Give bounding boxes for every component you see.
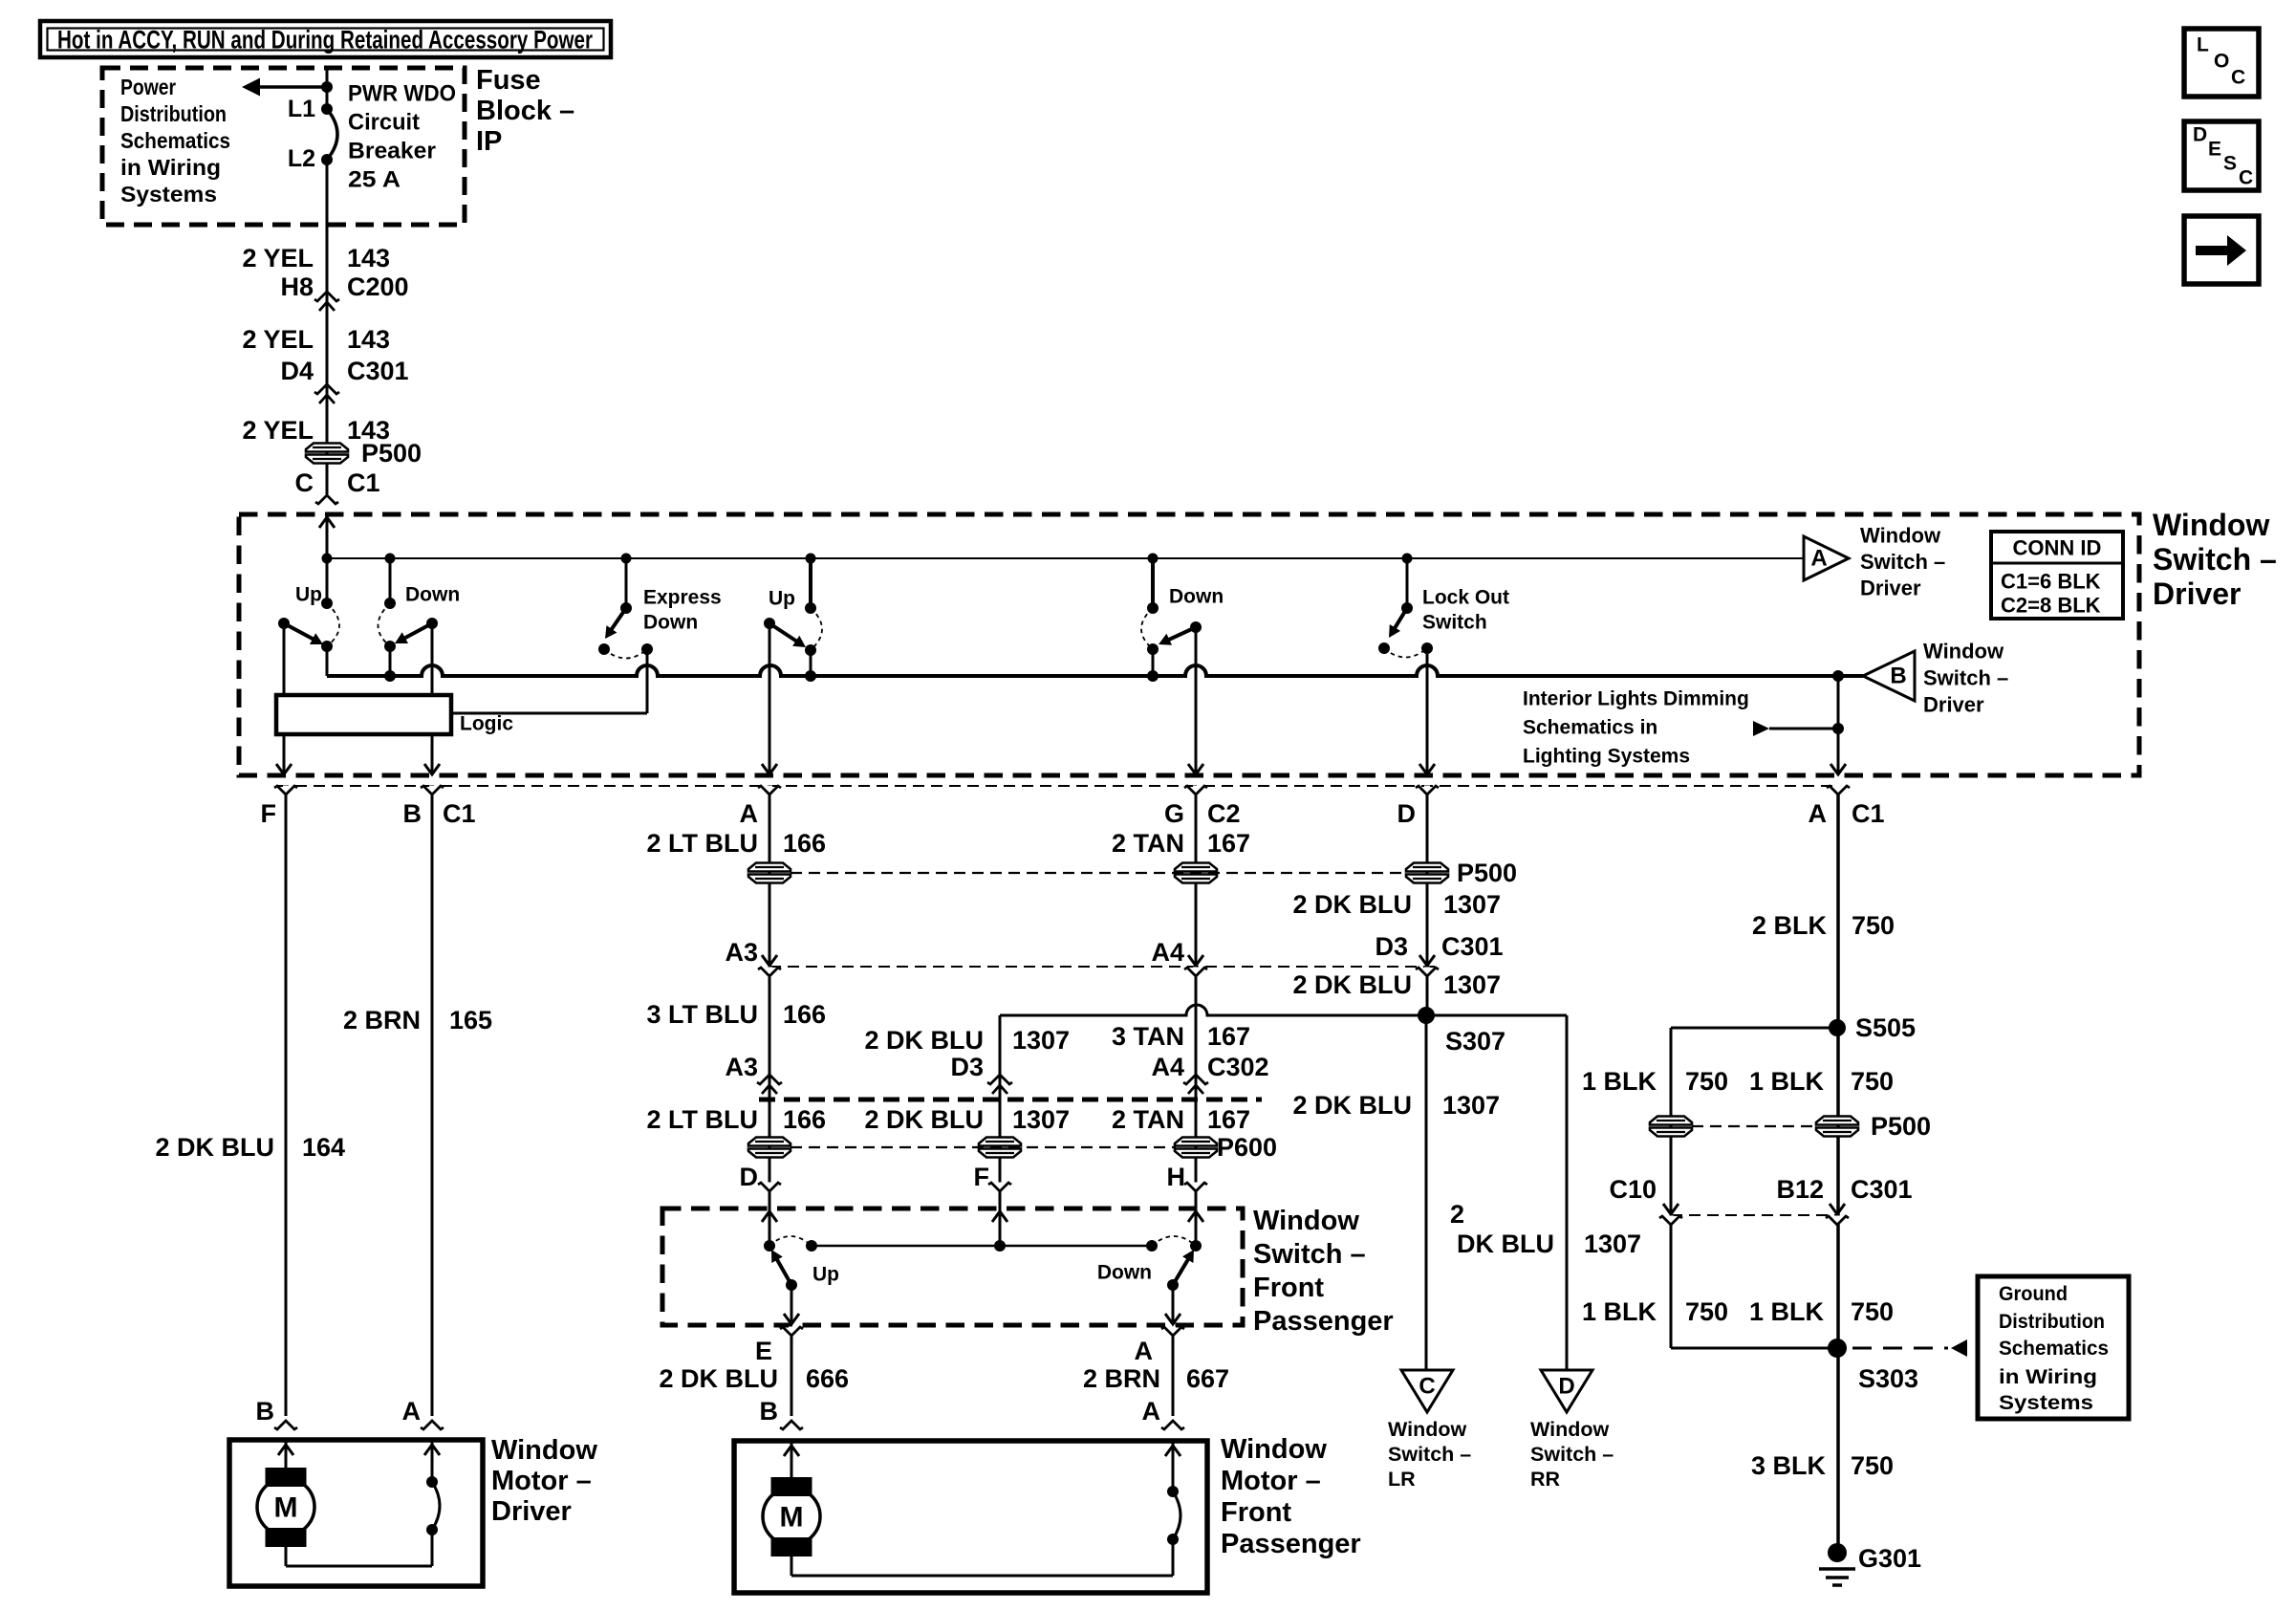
connector C301 body face dashed line: [762, 955, 777, 966]
svg-text:Up: Up: [812, 1264, 839, 1286]
svg-text:Express: Express: [643, 587, 722, 609]
svg-text:C: C: [1419, 1374, 1435, 1400]
passenger pin chevrons E A: [789, 1327, 794, 1336]
ground note dashed pointer: [1852, 1347, 1948, 1350]
svg-text:164: 164: [302, 1133, 345, 1162]
ground distribution note box: [1978, 1276, 2129, 1419]
wire E to passenger motor: [791, 1336, 793, 1416]
triangle connector A: [1804, 536, 1849, 580]
svg-text:G: G: [1164, 799, 1184, 828]
svg-text:2 DK BLU: 2 DK BLU: [659, 1364, 778, 1393]
connector C302 face heavy dashed line: [759, 1098, 1262, 1102]
svg-text:Window: Window: [1923, 640, 2004, 664]
svg-text:2 DK BLU: 2 DK BLU: [1292, 890, 1412, 919]
conn id box: [1991, 532, 2123, 619]
pin chevron at x=1493: [1424, 786, 1430, 795]
svg-text:Lock Out: Lock Out: [1422, 587, 1509, 609]
svg-text:2 BRN: 2 BRN: [343, 1006, 421, 1034]
svg-text:C1=6 BLK: C1=6 BLK: [2001, 570, 2101, 594]
svg-text:F: F: [974, 1163, 990, 1191]
svg-text:D: D: [2193, 124, 2207, 146]
svg-text:D: D: [1558, 1374, 1574, 1400]
svg-text:1307: 1307: [1012, 1105, 1070, 1134]
svg-text:Passenger: Passenger: [1253, 1306, 1394, 1337]
svg-text:B12: B12: [1776, 1175, 1824, 1204]
svg-text:1 BLK: 1 BLK: [1582, 1297, 1657, 1326]
pin chevron at x=1251: [1193, 786, 1199, 795]
svg-text:A3: A3: [725, 1053, 758, 1081]
svg-text:G301: G301: [1858, 1544, 1921, 1573]
svg-text:L: L: [2197, 34, 2209, 56]
driver motor internal contact: [431, 1440, 434, 1482]
connector C200 splice chevrons: [314, 292, 339, 301]
bus2 line with hops: [327, 665, 1863, 676]
grommet P600 on wire A: [748, 1138, 791, 1146]
passenger up switch in driver box: [806, 554, 816, 564]
arrow box: [2184, 216, 2259, 284]
svg-text:Switch –: Switch –: [1860, 550, 1945, 574]
svg-text:E: E: [2208, 139, 2221, 161]
svg-text:Fuse: Fuse: [476, 65, 541, 96]
wire S307 to LR triangle: [1425, 1015, 1428, 1370]
svg-text:C200: C200: [347, 272, 409, 301]
svg-text:P500: P500: [1457, 859, 1517, 887]
svg-text:Power: Power: [120, 75, 176, 99]
wire bus2 to pin A right: [1832, 670, 1844, 682]
driver down switch: [385, 554, 396, 564]
svg-text:DK BLU: DK BLU: [1457, 1230, 1554, 1258]
svg-text:Window: Window: [1221, 1434, 1327, 1465]
grommet on wire A: [748, 863, 791, 872]
svg-text:S: S: [2223, 153, 2237, 175]
svg-text:1 BLK: 1 BLK: [1749, 1297, 1825, 1326]
svg-text:M: M: [780, 1502, 804, 1534]
svg-text:2: 2: [1450, 1200, 1464, 1229]
svg-text:Switch –: Switch –: [1253, 1239, 1366, 1270]
svg-text:Down: Down: [643, 612, 698, 634]
svg-text:166: 166: [783, 1105, 826, 1134]
svg-text:A: A: [1809, 799, 1828, 828]
svg-text:L2: L2: [288, 145, 315, 172]
svg-text:Circuit: Circuit: [348, 110, 420, 136]
svg-text:A4: A4: [1151, 1053, 1184, 1081]
svg-text:in Wiring: in Wiring: [1999, 1365, 2097, 1388]
passenger motor M symbol: [791, 1441, 793, 1477]
svg-text:Systems: Systems: [1999, 1391, 2093, 1414]
wire B to window motor driver: [431, 795, 434, 1416]
svg-text:Breaker: Breaker: [348, 139, 436, 164]
svg-text:Window: Window: [1860, 524, 1941, 548]
svg-text:2 DK BLU: 2 DK BLU: [864, 1105, 984, 1134]
svg-text:Schematics: Schematics: [120, 128, 230, 153]
svg-text:Ground: Ground: [1999, 1282, 2068, 1305]
svg-text:O: O: [2214, 51, 2229, 73]
svg-text:Down: Down: [405, 584, 460, 606]
svg-text:LR: LR: [1388, 1468, 1416, 1491]
svg-text:2 TAN: 2 TAN: [1112, 829, 1184, 858]
svg-text:Distribution: Distribution: [120, 101, 227, 126]
svg-text:750: 750: [1685, 1297, 1728, 1326]
passenger switch wire H entry: [1195, 1208, 1198, 1246]
svg-text:Schematics in: Schematics in: [1523, 717, 1657, 739]
connector C1 entry chevron: [315, 495, 338, 504]
svg-text:143: 143: [347, 325, 390, 354]
svg-text:CONN ID: CONN ID: [2013, 536, 2102, 560]
driver motor bottom jumper: [285, 1547, 288, 1566]
svg-text:C301: C301: [347, 357, 409, 385]
splice S307: [1000, 1005, 1567, 1015]
wire G down to passenger switch: [1195, 795, 1198, 1208]
svg-text:D4: D4: [280, 357, 314, 385]
svg-text:Hot in ACCY, RUN and During Re: Hot in ACCY, RUN and During Retained Acc…: [57, 26, 593, 54]
bus1 supply line: [327, 557, 1804, 559]
svg-text:A: A: [1135, 1337, 1154, 1365]
svg-text:C301: C301: [1851, 1175, 1913, 1204]
svg-text:H8: H8: [280, 272, 314, 301]
fuse block - IP dashed box: [102, 68, 465, 225]
svg-text:1 BLK: 1 BLK: [1582, 1067, 1657, 1096]
window motor driver box: [229, 1440, 483, 1586]
svg-text:IP: IP: [476, 126, 502, 157]
window motor front passenger box: [734, 1441, 1207, 1593]
branch rejoin to S303: [1671, 1347, 1837, 1350]
svg-text:667: 667: [1186, 1364, 1229, 1393]
svg-text:Down: Down: [1097, 1262, 1152, 1284]
driver motor M symbol: [285, 1440, 288, 1468]
svg-text:Window: Window: [1253, 1206, 1359, 1236]
svg-text:D: D: [1397, 799, 1417, 828]
grommet P600 on wire F: [979, 1138, 1021, 1146]
passenger pin A wire: [1172, 1285, 1175, 1324]
circuit breaker PWR WDO 25A: [321, 103, 333, 115]
svg-text:A: A: [1810, 546, 1827, 572]
svg-text:A: A: [402, 1397, 422, 1426]
svg-text:25 A: 25 A: [348, 167, 401, 193]
svg-text:167: 167: [1207, 829, 1250, 858]
svg-text:Schematics: Schematics: [1999, 1337, 2109, 1360]
svg-text:H: H: [1167, 1163, 1186, 1191]
svg-text:C2=8 BLK: C2=8 BLK: [2001, 594, 2101, 618]
svg-text:S307: S307: [1445, 1027, 1505, 1056]
passenger switch wire D entry: [769, 1208, 771, 1246]
svg-text:P500: P500: [1871, 1112, 1931, 1141]
wire A pivot to pin A: [769, 623, 771, 774]
branch left from S505: [1671, 1027, 1837, 1030]
svg-text:Block –: Block –: [476, 96, 574, 126]
svg-text:Up: Up: [295, 584, 322, 606]
svg-text:B: B: [256, 1397, 275, 1426]
wire A right down to S505: [1836, 795, 1840, 1553]
wire D lockout to pin D: [1426, 648, 1429, 774]
connector C301 face right pair: [1663, 1204, 1679, 1214]
svg-text:1307: 1307: [1012, 1026, 1070, 1055]
svg-text:2 YEL: 2 YEL: [242, 244, 314, 272]
svg-text:Window: Window: [2153, 508, 2269, 542]
grommet P500 on feed wire: [326, 437, 329, 468]
svg-text:Driver: Driver: [1923, 693, 1984, 717]
svg-text:167: 167: [1207, 1022, 1250, 1051]
svg-text:2 YEL: 2 YEL: [242, 325, 314, 354]
svg-text:L1: L1: [288, 96, 315, 122]
svg-text:B: B: [1890, 664, 1906, 689]
interior lights feed arrow: [1753, 721, 1769, 736]
svg-text:F: F: [261, 799, 277, 828]
wire F through logic to pin F: [283, 623, 286, 695]
svg-text:Driver: Driver: [491, 1496, 572, 1527]
svg-text:A3: A3: [725, 938, 758, 967]
svg-text:Up: Up: [769, 588, 795, 610]
pin chevron at x=299: [283, 786, 289, 795]
triangle connector D: [1541, 1370, 1592, 1412]
svg-text:D3: D3: [950, 1053, 984, 1081]
svg-text:2 TAN: 2 TAN: [1112, 1105, 1184, 1134]
C301 face crossing wire D: [1419, 955, 1435, 966]
driver up switch: [322, 554, 333, 564]
node at breaker feed: [321, 81, 333, 93]
svg-text:A: A: [740, 799, 759, 828]
svg-text:1307: 1307: [1584, 1230, 1641, 1258]
svg-text:M: M: [274, 1492, 298, 1524]
svg-text:Switch –: Switch –: [2153, 542, 2277, 577]
svg-text:C: C: [295, 468, 314, 497]
lock out switch: [1402, 554, 1413, 564]
express down switch: [621, 554, 632, 564]
svg-text:Window: Window: [1530, 1418, 1609, 1441]
svg-text:3 TAN: 3 TAN: [1112, 1022, 1184, 1051]
grommet row P500 dashed link: [791, 872, 1405, 874]
connector C301 splice chevrons: [314, 384, 339, 394]
svg-text:750: 750: [1851, 1297, 1894, 1326]
wire F to window motor driver: [285, 795, 288, 1416]
svg-text:C10: C10: [1609, 1175, 1657, 1204]
svg-text:Driver: Driver: [2153, 577, 2242, 611]
triangle connector C: [1401, 1370, 1453, 1412]
svg-text:3 LT BLU: 3 LT BLU: [647, 1000, 759, 1029]
logic box: [276, 695, 451, 734]
svg-text:750: 750: [1852, 911, 1895, 940]
svg-text:C1: C1: [1852, 799, 1885, 828]
svg-text:2 DK BLU: 2 DK BLU: [1292, 1091, 1412, 1120]
grommet P500 pair: [1692, 1125, 1816, 1127]
svg-text:3 BLK: 3 BLK: [1751, 1451, 1827, 1480]
connector face dashed line under driver box: [277, 785, 1838, 787]
pin chevron at x=1923: [1835, 786, 1841, 795]
wire P500 to switch connector: [326, 468, 329, 494]
svg-text:Switch: Switch: [1422, 612, 1487, 634]
svg-text:Passenger: Passenger: [1221, 1529, 1361, 1559]
svg-text:143: 143: [347, 244, 390, 272]
svg-text:Switch –: Switch –: [1388, 1443, 1471, 1466]
wire from fuse block top: [326, 69, 329, 109]
svg-text:PWR WDO: PWR WDO: [348, 81, 456, 107]
svg-text:Logic: Logic: [460, 713, 513, 735]
svg-text:167: 167: [1207, 1105, 1250, 1134]
pin chevron at x=805: [767, 786, 772, 795]
svg-text:S505: S505: [1855, 1013, 1916, 1042]
svg-text:2 DK BLU: 2 DK BLU: [1292, 970, 1412, 999]
svg-text:Distribution: Distribution: [1999, 1310, 2105, 1333]
passenger switch common bar: [812, 1245, 1152, 1248]
svg-text:A4: A4: [1151, 938, 1184, 967]
svg-text:Switch –: Switch –: [1530, 1443, 1614, 1466]
svg-text:D3: D3: [1375, 932, 1408, 961]
svg-text:2 DK BLU: 2 DK BLU: [155, 1133, 274, 1162]
wire S307 to RR triangle: [1566, 1015, 1569, 1370]
svg-text:Front: Front: [1221, 1497, 1291, 1528]
svg-text:Systems: Systems: [120, 182, 217, 207]
motor pin chevrons passenger: [780, 1421, 803, 1429]
pin chevron at x=452: [429, 786, 435, 795]
svg-text:C: C: [2231, 67, 2245, 89]
wire A to passenger motor: [1172, 1336, 1175, 1416]
svg-text:2 LT BLU: 2 LT BLU: [647, 1105, 759, 1134]
svg-text:2 BLK: 2 BLK: [1752, 911, 1828, 940]
wire B through logic to pin B: [431, 623, 434, 695]
passenger down switch: [1190, 1240, 1202, 1252]
splice S505: [1829, 1019, 1846, 1036]
svg-text:165: 165: [449, 1006, 492, 1034]
express down wire to logic: [646, 649, 649, 713]
svg-text:Motor –: Motor –: [491, 1466, 592, 1496]
passenger pin E wire: [791, 1285, 793, 1324]
svg-text:750: 750: [1685, 1067, 1728, 1096]
splice S303: [1828, 1339, 1847, 1358]
svg-text:P600: P600: [1217, 1133, 1277, 1162]
grommet on wire G: [1175, 863, 1217, 872]
svg-text:2 DK BLU: 2 DK BLU: [864, 1026, 984, 1055]
svg-text:C1: C1: [443, 799, 476, 828]
wire A down to passenger switch: [769, 795, 771, 1208]
svg-text:Interior Lights Dimming: Interior Lights Dimming: [1523, 688, 1749, 710]
svg-text:C302: C302: [1207, 1053, 1269, 1081]
svg-text:2 BRN: 2 BRN: [1083, 1364, 1160, 1393]
pin chevrons D F H: [767, 1183, 772, 1191]
wire D down to S307: [1426, 795, 1429, 1015]
ground G301: [1828, 1543, 1847, 1562]
svg-text:2 LT BLU: 2 LT BLU: [647, 829, 759, 858]
loc box: [2184, 29, 2259, 97]
svg-text:Front: Front: [1253, 1273, 1324, 1303]
passenger down switch in driver box: [1148, 554, 1159, 564]
svg-text:2 YEL: 2 YEL: [242, 416, 314, 445]
svg-text:Driver: Driver: [1860, 577, 1921, 600]
svg-text:666: 666: [806, 1364, 849, 1393]
svg-text:Motor –: Motor –: [1221, 1466, 1321, 1496]
passenger switch wire F entry: [999, 1208, 1002, 1246]
svg-text:1307: 1307: [1443, 890, 1501, 919]
svg-text:in Wiring: in Wiring: [120, 155, 221, 180]
svg-text:1307: 1307: [1443, 970, 1501, 999]
svg-text:166: 166: [783, 1000, 826, 1029]
svg-text:1307: 1307: [1442, 1091, 1500, 1120]
svg-text:750: 750: [1851, 1451, 1894, 1480]
svg-text:D: D: [740, 1163, 759, 1191]
window switch driver dashed box: [239, 514, 2139, 775]
svg-text:RR: RR: [1530, 1468, 1561, 1491]
svg-text:750: 750: [1851, 1067, 1894, 1096]
svg-text:B: B: [760, 1397, 779, 1426]
svg-text:C1: C1: [347, 468, 380, 497]
wire G pivot to pin G: [1195, 627, 1198, 774]
arrow to power distribution: [259, 85, 329, 89]
svg-text:Switch –: Switch –: [1923, 666, 2008, 690]
svg-text:P500: P500: [361, 439, 422, 468]
svg-text:Down: Down: [1169, 586, 1224, 608]
feed wire entering switch: [326, 515, 329, 558]
window switch front passenger dashed box: [662, 1208, 1243, 1325]
wire F branch vertical: [999, 1015, 1002, 1208]
svg-text:A: A: [1142, 1397, 1161, 1426]
grommet P500 on wire D: [1406, 863, 1448, 872]
svg-text:1 BLK: 1 BLK: [1749, 1067, 1825, 1096]
passenger motor bottom jumper: [791, 1557, 793, 1576]
passenger motor internal contact: [1172, 1441, 1175, 1491]
triangle connector B: [1863, 651, 1915, 701]
passenger up switch: [764, 1240, 775, 1252]
connector C302 chevrons: [757, 1075, 782, 1084]
desc box: [2184, 121, 2259, 190]
wire breaker to P500: [326, 160, 329, 437]
svg-text:C: C: [2239, 167, 2253, 189]
svg-text:S303: S303: [1858, 1364, 1918, 1393]
svg-text:Window: Window: [491, 1435, 597, 1466]
svg-text:C301: C301: [1441, 932, 1504, 961]
grommet P600 on wire G: [1175, 1138, 1217, 1146]
svg-text:B: B: [403, 799, 422, 828]
svg-text:166: 166: [783, 829, 826, 858]
svg-text:Lighting Systems: Lighting Systems: [1523, 746, 1690, 768]
grommet row P600 dashed link: [791, 1146, 1176, 1148]
svg-text:Window: Window: [1388, 1418, 1466, 1441]
title box: Hot in ACCY, RUN and During Retained Accessory Power: [40, 21, 611, 57]
svg-text:C2: C2: [1207, 799, 1241, 828]
motor pin chevrons: [274, 1421, 297, 1429]
svg-text:E: E: [755, 1337, 772, 1365]
